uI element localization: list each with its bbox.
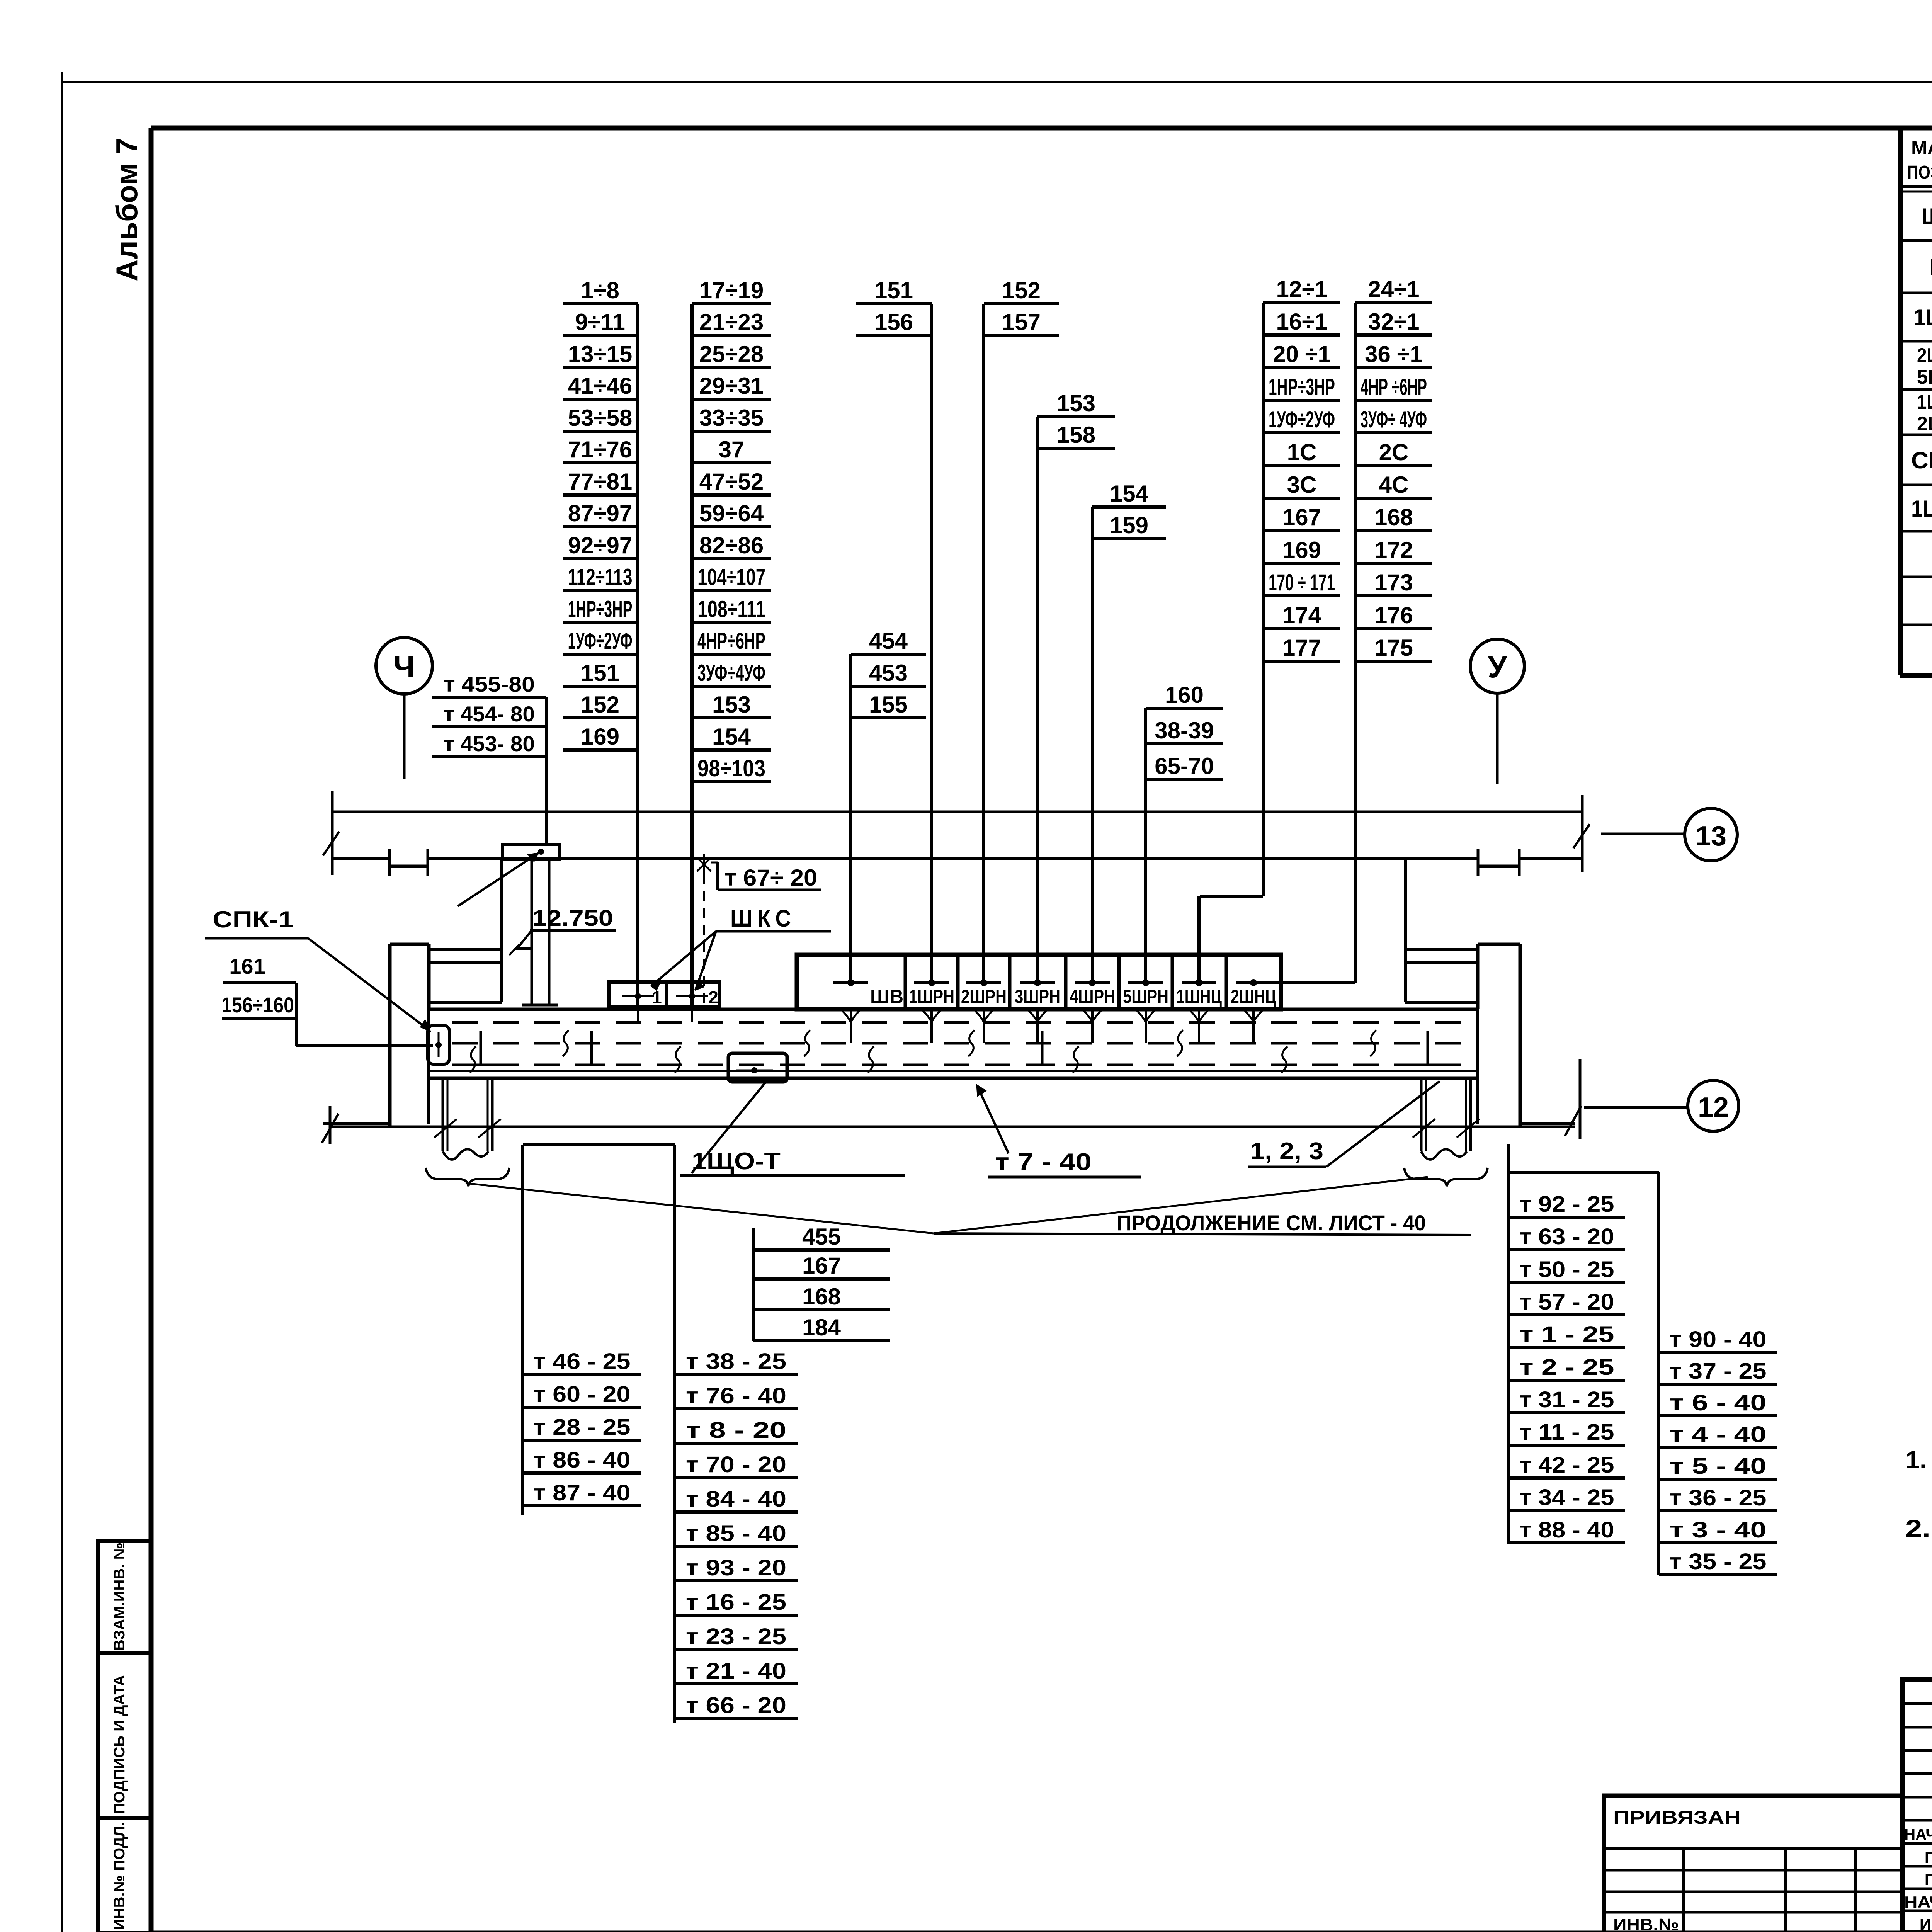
- svg-text:т 84 - 40: т 84 - 40: [686, 1486, 786, 1512]
- note ПРОДОЛЖЕНИЕ СМ. ЛИСТ - 40: [1117, 1211, 1426, 1235]
- svg-text:т 5 - 40: т 5 - 40: [1670, 1454, 1767, 1479]
- svg-text:2ШНЦ: 2ШНЦ: [1917, 413, 1932, 435]
- axis bubble Ч: [376, 638, 432, 779]
- tube label т 67÷20: [697, 854, 821, 1005]
- svg-text:т 455-80: т 455-80: [444, 672, 535, 696]
- svg-text:21÷23: 21÷23: [699, 309, 764, 335]
- svg-text:ПРИВЯЗАН: ПРИВЯЗАН: [1613, 1808, 1741, 1828]
- svg-text:32÷1: 32÷1: [1368, 309, 1419, 335]
- svg-text:92÷97: 92÷97: [568, 532, 632, 558]
- svg-text:т 67÷ 20: т 67÷ 20: [724, 865, 817, 891]
- svg-text:т 85 - 40: т 85 - 40: [686, 1521, 786, 1546]
- svg-text:47÷52: 47÷52: [699, 469, 764, 495]
- svg-text:1ШРН: 1ШРН: [1913, 304, 1932, 330]
- svg-text:5ШРН: 5ШРН: [1123, 986, 1168, 1007]
- svg-text:т 60 - 20: т 60 - 20: [534, 1382, 631, 1407]
- svg-text:т 3 - 40: т 3 - 40: [1670, 1517, 1767, 1543]
- svg-text:т 31 - 25: т 31 - 25: [1520, 1387, 1614, 1412]
- attachment box ПРИВЯЗАН: [1604, 1796, 1902, 1932]
- svg-text:172: 172: [1374, 537, 1413, 563]
- svg-text:38-39: 38-39: [1155, 718, 1214, 743]
- svg-text:1УФ÷2УФ: 1УФ÷2УФ: [1269, 406, 1335, 432]
- cable group ladder 153/158 group: [1037, 390, 1115, 984]
- svg-text:175: 175: [1374, 635, 1413, 661]
- svg-text:т 87 - 40: т 87 - 40: [534, 1480, 631, 1505]
- svg-text:т 2 - 25: т 2 - 25: [1520, 1355, 1614, 1380]
- svg-text:НАЧ.ОТД.: НАЧ.ОТД.: [1904, 1825, 1932, 1844]
- svg-text:16÷1: 16÷1: [1276, 309, 1327, 335]
- cable group ladder т455-80 group: [432, 672, 546, 844]
- svg-text:4НР ÷6НР: 4НР ÷6НР: [1361, 374, 1427, 400]
- svg-text:3УФ÷4УФ: 3УФ÷4УФ: [697, 660, 765, 686]
- axis bubble У: [1470, 639, 1524, 784]
- foundation pit left: [426, 1078, 509, 1186]
- svg-text:455: 455: [802, 1224, 841, 1250]
- svg-text:ПРОДОЛЖЕНИЕ СМ. ЛИСТ - 40: ПРОДОЛЖЕНИЕ СМ. ЛИСТ - 40: [1117, 1211, 1426, 1235]
- svg-text:13: 13: [1696, 821, 1726, 852]
- label ШКС: [651, 905, 831, 990]
- svg-text:т 35 - 25: т 35 - 25: [1670, 1549, 1767, 1574]
- parts table: [1900, 128, 1932, 675]
- svg-text:2ШНЦ: 2ШНЦ: [1231, 986, 1276, 1007]
- svg-text:ИНВ.№ ПОДЛ.: ИНВ.№ ПОДЛ.: [111, 1822, 128, 1930]
- axis 13 end ticks and break marks: [323, 791, 1590, 875]
- svg-text:53÷58: 53÷58: [568, 405, 632, 431]
- wire stub from pit to stack C: [1507, 1144, 1510, 1172]
- svg-text:т 63 - 20: т 63 - 20: [1520, 1224, 1614, 1249]
- svg-text:МАРКА: МАРКА: [1911, 138, 1932, 158]
- svg-text:1НР÷3НР: 1НР÷3НР: [568, 596, 633, 622]
- cable group ladder т46-25 stack: [523, 1145, 641, 1515]
- svg-text:24÷1: 24÷1: [1368, 276, 1419, 302]
- svg-text:29÷31: 29÷31: [699, 373, 764, 399]
- svg-text:104÷107: 104÷107: [697, 564, 765, 590]
- svg-text:1С: 1С: [1287, 439, 1317, 465]
- svg-text:1УФ÷2УФ: 1УФ÷2УФ: [568, 628, 633, 654]
- cable group ladder т92-25 stack: [1509, 1172, 1625, 1544]
- svg-text:169: 169: [1282, 537, 1321, 563]
- svg-text:2ШРН: 2ШРН: [961, 986, 1007, 1007]
- elevation mark 12.750: [509, 906, 616, 955]
- svg-text:ШКС: ШКС: [730, 905, 796, 932]
- cable group ladder 152/157 group: [984, 277, 1059, 984]
- svg-text:17÷19: 17÷19: [699, 277, 764, 303]
- svg-text:т 21 - 40: т 21 - 40: [686, 1658, 786, 1684]
- svg-text:2: 2: [708, 987, 718, 1007]
- label 1,2,3: [1248, 1081, 1440, 1167]
- svg-text:158: 158: [1057, 422, 1095, 448]
- lower stack A top bar: [523, 1143, 675, 1146]
- svg-text:168: 168: [802, 1284, 841, 1310]
- svg-text:т 1 - 25: т 1 - 25: [1520, 1322, 1614, 1347]
- left margin stamp boxes: [98, 1541, 151, 1932]
- svg-text:2С: 2С: [1379, 439, 1409, 465]
- svg-text:3ШРН: 3ШРН: [1015, 986, 1060, 1007]
- svg-text:1ШНЦ,: 1ШНЦ,: [1917, 391, 1932, 413]
- svg-text:174: 174: [1282, 602, 1321, 628]
- cable group ladder 160 group: [1146, 682, 1223, 984]
- svg-text:87÷97: 87÷97: [568, 500, 632, 526]
- svg-text:ШКС: ШКС: [1922, 204, 1932, 230]
- svg-text:112÷113: 112÷113: [568, 564, 633, 590]
- cable group ladder 1÷8 group: [563, 277, 638, 1009]
- svg-text:т 453- 80: т 453- 80: [444, 731, 535, 756]
- svg-text:77÷81: 77÷81: [568, 469, 632, 495]
- СПК unit box in slab: [428, 1026, 449, 1064]
- svg-text:155: 155: [869, 692, 908, 718]
- svg-text:ШВ: ШВ: [1930, 254, 1932, 280]
- svg-text:25÷28: 25÷28: [699, 341, 764, 367]
- svg-text:151: 151: [874, 277, 913, 303]
- svg-text:т 38 - 25: т 38 - 25: [686, 1349, 786, 1374]
- svg-text:т 92 - 25: т 92 - 25: [1520, 1192, 1614, 1217]
- wire jog 12÷1 group to cabinet 1ШНЦ: [1199, 896, 1263, 984]
- svg-text:ГИП: ГИП: [1925, 1848, 1932, 1866]
- wire: axis 12 line: [322, 1059, 1581, 1144]
- svg-text:т 36 - 25: т 36 - 25: [1670, 1485, 1767, 1510]
- svg-text:т 6 - 40: т 6 - 40: [1670, 1390, 1767, 1415]
- svg-text:12.750: 12.750: [532, 906, 613, 931]
- svg-text:184: 184: [802, 1315, 841, 1340]
- wire: axis 13 lower chord with seat notches: [332, 849, 1582, 876]
- svg-text:65-70: 65-70: [1155, 753, 1214, 779]
- svg-text:т 50 - 25: т 50 - 25: [1520, 1257, 1614, 1282]
- svg-text:169: 169: [581, 724, 619, 750]
- riser feet in slab: [468, 1031, 1441, 1065]
- svg-text:1, 2, 3: 1, 2, 3: [1250, 1138, 1323, 1165]
- cable group ladder 151/156 group: [856, 277, 932, 984]
- svg-text:т 90 - 40: т 90 - 40: [1670, 1327, 1767, 1352]
- svg-text:36 ÷1: 36 ÷1: [1365, 341, 1423, 367]
- svg-text:151: 151: [581, 660, 619, 686]
- svg-text:41÷46: 41÷46: [568, 373, 632, 399]
- cabinet drops into slab: [841, 1009, 1264, 1043]
- svg-text:т 16 - 25: т 16 - 25: [686, 1590, 786, 1615]
- svg-text:154: 154: [1110, 481, 1149, 507]
- svg-text:4ШРН: 4ШРН: [1070, 986, 1115, 1007]
- svg-text:ГИП: ГИП: [1925, 1871, 1932, 1889]
- svg-text:т 23 - 25: т 23 - 25: [686, 1624, 786, 1649]
- svg-text:9÷11: 9÷11: [575, 309, 625, 335]
- svg-text:453: 453: [869, 660, 908, 686]
- stand boxes 1 and 2: [609, 982, 719, 1022]
- svg-text:159: 159: [1110, 512, 1148, 538]
- svg-text:13÷15: 13÷15: [568, 341, 632, 367]
- svg-text:1ШРН: 1ШРН: [909, 986, 954, 1007]
- svg-text:4С: 4С: [1379, 472, 1409, 498]
- svg-text:167: 167: [1282, 504, 1321, 530]
- svg-text:т 66 - 20: т 66 - 20: [686, 1693, 786, 1718]
- svg-text:1ШНЦ: 1ШНЦ: [1176, 986, 1222, 1007]
- label т 7-40: [977, 1085, 1141, 1177]
- svg-text:т 42 - 25: т 42 - 25: [1520, 1452, 1614, 1478]
- wire: axis 13 upper chord: [332, 811, 1582, 813]
- svg-text:160: 160: [1165, 682, 1204, 708]
- lower stack C top bar: [1509, 1171, 1659, 1174]
- svg-text:Ч: Ч: [393, 649, 415, 684]
- svg-text:т 11 - 25: т 11 - 25: [1520, 1420, 1614, 1445]
- svg-text:У: У: [1488, 650, 1507, 684]
- svg-text:71÷76: 71÷76: [568, 437, 632, 463]
- left wall section: [323, 858, 502, 1127]
- cable group ladder 12÷1 group: [1263, 276, 1340, 896]
- svg-text:1÷8: 1÷8: [581, 277, 619, 303]
- svg-text:ПОДПИСЬ И ДАТА: ПОДПИСЬ И ДАТА: [111, 1675, 128, 1814]
- cable group ladder 24÷1 group: [1355, 276, 1432, 983]
- svg-text:2. ОБЩИЕ УКАЗАНИЯ СМ. Л: 2. ОБЩИЕ УКАЗАНИЯ СМ. ЛИСТ - 1: [1905, 1515, 1932, 1543]
- hanger box on axis 13: [458, 844, 559, 1005]
- svg-text:т 88 - 40: т 88 - 40: [1520, 1517, 1614, 1543]
- svg-text:59÷64: 59÷64: [699, 500, 764, 526]
- svg-text:1ЩО-Т: 1ЩО-Т: [692, 1148, 781, 1175]
- svg-text:157: 157: [1002, 309, 1041, 335]
- break squiggles on slab: [470, 1030, 1376, 1073]
- foundation pit right: [1404, 1078, 1488, 1186]
- cable group ladder 455 group: [753, 1224, 890, 1341]
- svg-text:152: 152: [581, 692, 619, 718]
- svg-text:176: 176: [1374, 602, 1413, 628]
- svg-text:5ШРН: 5ШРН: [1917, 366, 1932, 388]
- svg-text:12÷1: 12÷1: [1276, 276, 1327, 302]
- svg-text:153: 153: [1057, 390, 1095, 416]
- svg-text:20 ÷1: 20 ÷1: [1273, 341, 1331, 367]
- svg-text:4НР÷6НР: 4НР÷6НР: [697, 628, 765, 654]
- svg-text:ИНВ.№: ИНВ.№: [1613, 1915, 1679, 1932]
- cable group ladder т90-40 stack: [1659, 1172, 1777, 1575]
- wire jog 24÷1 group to cabinet 2ШНЦ: [1253, 981, 1355, 984]
- cable group ladder т38-25 stack: [675, 1145, 798, 1723]
- svg-text:3УФ÷ 4УФ: 3УФ÷ 4УФ: [1361, 406, 1427, 432]
- axis bubble 13: [1601, 808, 1737, 861]
- svg-text:3С: 3С: [1287, 472, 1317, 498]
- svg-text:154: 154: [712, 724, 751, 750]
- title block: [1902, 1680, 1932, 1932]
- svg-text:СПК 1: СПК 1: [1911, 447, 1932, 473]
- svg-text:т 70 - 20: т 70 - 20: [686, 1452, 786, 1477]
- svg-text:СПК-1: СПК-1: [213, 906, 294, 932]
- svg-text:Альбом 7: Альбом 7: [110, 138, 144, 281]
- svg-text:82÷86: 82÷86: [699, 532, 764, 558]
- label СПК-1: [205, 906, 430, 1031]
- svg-text:98÷103: 98÷103: [697, 755, 765, 781]
- svg-text:1ЩО-Т: 1ЩО-Т: [1911, 496, 1932, 522]
- svg-text:ШВ: ШВ: [870, 986, 903, 1007]
- svg-text:т 46 - 25: т 46 - 25: [534, 1349, 631, 1374]
- svg-text:т 4 - 40: т 4 - 40: [1670, 1422, 1767, 1447]
- svg-text:ИНЖ.: ИНЖ.: [1920, 1915, 1932, 1932]
- svg-text:т 76 - 40: т 76 - 40: [686, 1383, 786, 1408]
- svg-text:454: 454: [869, 628, 908, 654]
- leader lines to continuation note: [466, 1177, 1471, 1235]
- svg-text:НАЧ. ГР.: НАЧ. ГР.: [1904, 1893, 1932, 1911]
- label 1ЩО-Т: [680, 1148, 905, 1175]
- svg-text:1НР÷3НР: 1НР÷3НР: [1269, 374, 1335, 400]
- distribution box 1ЩО-Т: [692, 1053, 787, 1173]
- svg-text:2ШРН:: 2ШРН:: [1917, 344, 1932, 367]
- svg-text:161: 161: [229, 954, 265, 978]
- svg-text:т 8 - 20: т 8 - 20: [686, 1418, 786, 1443]
- svg-text:152: 152: [1002, 277, 1041, 303]
- svg-text:177: 177: [1282, 635, 1321, 661]
- cabinet row ШВ..2ШНЦ: [797, 955, 1281, 1009]
- svg-text:153: 153: [712, 692, 751, 718]
- cable group ladder 154/159 group: [1092, 481, 1166, 984]
- svg-text:т 454- 80: т 454- 80: [444, 702, 535, 726]
- svg-text:т 57 - 20: т 57 - 20: [1520, 1289, 1614, 1315]
- right wall section: [1405, 858, 1575, 1127]
- svg-text:ПОЗИЦИЯ: ПОЗИЦИЯ: [1907, 162, 1932, 183]
- cable group ladder 17÷19 group: [692, 277, 771, 1009]
- svg-text:12: 12: [1698, 1092, 1729, 1123]
- svg-text:156: 156: [874, 309, 913, 335]
- floor slab with cable trays: [429, 1009, 1478, 1078]
- svg-text:173: 173: [1374, 570, 1413, 595]
- svg-text:168: 168: [1374, 504, 1413, 530]
- svg-text:156÷160: 156÷160: [221, 993, 294, 1017]
- svg-text:1. ТРУБНО - КАБЕЛЬНЫЙ ЖУРНА: 1. ТРУБНО - КАБЕЛЬНЫЙ ЖУРНАЛ СМ. ЛИСТЫ -…: [1905, 1446, 1932, 1474]
- label 161 / 156÷160: [221, 954, 433, 1046]
- svg-text:т 93 - 20: т 93 - 20: [686, 1555, 786, 1580]
- svg-text:167: 167: [802, 1253, 841, 1279]
- svg-text:33÷35: 33÷35: [699, 405, 764, 431]
- axis bubble 12: [1584, 1080, 1739, 1131]
- svg-text:т 28 - 25: т 28 - 25: [534, 1415, 631, 1440]
- svg-text:ВЗАМ.ИНВ. №: ВЗАМ.ИНВ. №: [111, 1543, 128, 1651]
- svg-text:т 86 - 40: т 86 - 40: [534, 1447, 631, 1473]
- cabinet suspension crosses: [833, 979, 1271, 986]
- svg-text:108÷111: 108÷111: [697, 596, 765, 622]
- cable group ladder 454/453/155 group: [851, 628, 926, 984]
- svg-text:т 37 - 25: т 37 - 25: [1670, 1359, 1767, 1384]
- svg-text:170 ÷ 171: 170 ÷ 171: [1269, 570, 1335, 595]
- svg-text:т 34 - 25: т 34 - 25: [1520, 1485, 1614, 1510]
- svg-text:37: 37: [719, 437, 745, 463]
